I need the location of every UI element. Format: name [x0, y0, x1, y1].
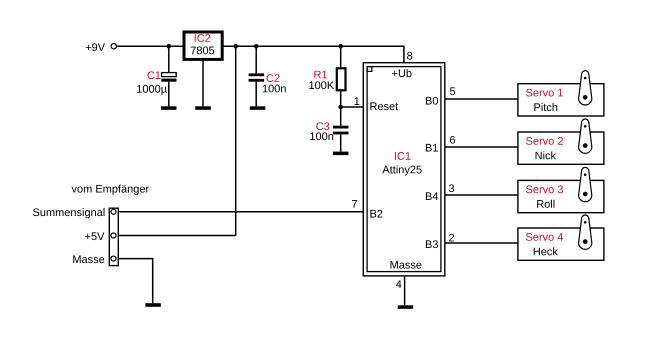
- IC1 pin B3 name: [426, 240, 438, 248]
- junction rail/R1: [338, 44, 343, 49]
- wire pin 2 to servo 4: [445, 242, 518, 244]
- IC1 pin B4 name: [426, 192, 438, 200]
- servo 2 horn icon: [579, 119, 592, 153]
- servo 3 name Roll: [537, 200, 554, 208]
- node +9V terminal: [111, 44, 116, 49]
- capacitor C3 plate bottom: [333, 132, 349, 135]
- servo 2 box: [518, 132, 604, 164]
- IC1 pin Masse name: [391, 261, 422, 269]
- wire pin 6 to servo 2: [445, 146, 518, 148]
- wire +9V rail to IC1 pin 8: [117, 46, 404, 62]
- IC1 pin B1 name: [426, 144, 438, 152]
- capacitor C2 plate top: [249, 73, 265, 76]
- ground C2: [250, 106, 265, 110]
- wire R1 top: [340, 46, 342, 68]
- wire Masse to ground: [117, 259, 153, 304]
- wire +5V feed: [117, 235, 236, 237]
- pin 4 number: [396, 280, 402, 288]
- servo 1 box: [518, 84, 604, 116]
- junction rail/C1: [167, 44, 172, 49]
- servo 1 name Pitch: [534, 103, 557, 111]
- wire C1 top: [168, 46, 170, 72]
- IC2 value 7805: [191, 47, 214, 55]
- IC1 outer box: [363, 63, 445, 276]
- IC1 label: [395, 152, 411, 160]
- IC1 value Attiny25: [382, 165, 421, 175]
- servo 1 horn icon: [579, 71, 592, 105]
- servo 2 name Nick: [536, 151, 557, 159]
- wire C2 bottom: [255, 82, 257, 107]
- resistor R1 body: [337, 68, 346, 90]
- ground C3: [333, 152, 349, 156]
- IC1 pin1 marker: [367, 67, 372, 72]
- pin 8 number: [407, 52, 412, 60]
- servo 4 box: [518, 228, 604, 260]
- servo 4 horn icon: [579, 215, 592, 249]
- pin 5 number: [450, 87, 455, 95]
- capacitor C2 value 100n: [263, 85, 286, 93]
- pin 6 number: [450, 136, 455, 144]
- node +9V label: [86, 43, 105, 51]
- pin 2 number: [449, 234, 454, 242]
- capacitor C3 plate top: [333, 126, 349, 129]
- capacitor C1 label: [148, 71, 161, 79]
- junction rail/+5V drop: [233, 44, 238, 49]
- ground IC2: [195, 106, 211, 110]
- ground IC1 pin 4: [398, 305, 414, 309]
- node Summensignal label: [33, 208, 105, 218]
- capacitor C3 value 100n: [310, 132, 333, 140]
- junction rail/C2: [254, 44, 259, 49]
- node Masse label: [73, 255, 104, 263]
- capacitor C1 negative plate: [161, 79, 176, 82]
- wire +5V vertical to connector: [235, 46, 237, 235]
- capacitor C3 label: [316, 122, 329, 130]
- pin 3 number: [449, 184, 454, 192]
- capacitor C1 positive plate: [162, 73, 177, 77]
- wire pin 5 to servo 1: [445, 98, 518, 100]
- capacitor C2 plate bottom: [249, 79, 265, 82]
- connector pin Masse: [111, 256, 116, 261]
- connector body: [109, 208, 118, 265]
- node vom Empfänger heading: [72, 185, 149, 195]
- servo 2 label: [526, 137, 563, 145]
- IC1 pin Reset name: [370, 102, 398, 110]
- wire IC2 ground pin: [202, 61, 204, 107]
- junction reset node: [338, 105, 343, 110]
- servo 3 label: [526, 185, 563, 193]
- pin 1 number: [355, 97, 360, 105]
- wire C1 bottom: [168, 82, 170, 107]
- servo 1 label: [526, 89, 563, 97]
- servo 4 name Heck: [534, 247, 558, 255]
- servo 3 horn icon: [579, 167, 592, 201]
- IC1 pin +Ub name: [392, 69, 411, 77]
- IC1 pin B0 name: [426, 97, 438, 105]
- ground C1: [161, 106, 177, 110]
- capacitor C2 label: [267, 74, 280, 82]
- wire to pin 1 Reset: [341, 106, 363, 108]
- IC1 pin B2 name: [370, 210, 382, 218]
- connector pin +5V: [111, 233, 116, 238]
- resistor R1 value 100K: [309, 81, 334, 89]
- servo 4 label: [526, 233, 563, 241]
- connector pin Summensignal: [111, 209, 116, 214]
- node +5V label: [85, 232, 104, 240]
- wire C3 bottom: [340, 134, 342, 151]
- pin 7 number: [352, 200, 357, 208]
- wire pin 3 to servo 3: [445, 194, 518, 196]
- capacitor C1 value 1000µ: [137, 85, 167, 95]
- resistor R1 label: [314, 71, 327, 79]
- wire R1 bottom / C3 top: [340, 90, 342, 125]
- wire C2 top: [255, 46, 257, 73]
- IC1 inner box: [367, 67, 441, 272]
- ground Masse: [145, 303, 160, 307]
- servo 3 box: [518, 180, 604, 212]
- regulator IC2 box: [184, 32, 222, 59]
- IC2 label: [195, 34, 211, 42]
- wire Summensignal to pin 7: [117, 211, 363, 213]
- wire pin 4 to ground: [404, 277, 406, 306]
